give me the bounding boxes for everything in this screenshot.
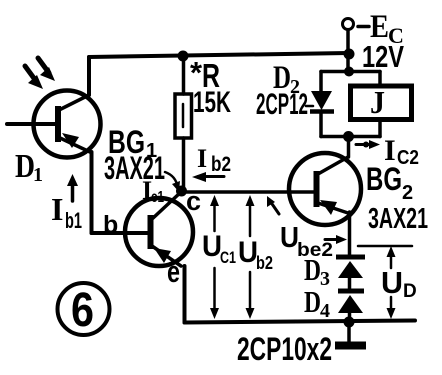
svg-text:3AX21: 3AX21 — [368, 203, 428, 235]
transistor BG2 — [289, 153, 361, 225]
svg-text:I: I — [51, 191, 63, 227]
wire: D1 collector up to top rail — [87, 57, 91, 95]
wire: BG1 emitter down to bottom rail — [183, 266, 187, 323]
svg-text:3: 3 — [320, 268, 330, 290]
wire: -Ec down to branch node — [346, 30, 350, 72]
svg-text:D: D — [403, 281, 417, 302]
label D4 — [304, 284, 330, 322]
relay J with branch wires — [348, 72, 412, 137]
svg-text:2: 2 — [402, 182, 413, 204]
node: emitter / bottom rail junction — [344, 317, 355, 328]
label BG2 3AX21 — [366, 161, 428, 235]
figure number 6 — [58, 283, 110, 337]
svg-text:1: 1 — [33, 164, 43, 186]
wire: junction down to resistor — [182, 56, 186, 94]
label I_c1 with curved arrow — [142, 172, 180, 206]
label D1 — [15, 148, 43, 186]
label I_b2 with arrow — [192, 144, 231, 182]
diode D4 — [338, 291, 364, 322]
svg-text:b2: b2 — [256, 253, 273, 273]
label -Ec 12V — [358, 9, 404, 74]
bottom rail wire — [185, 321, 416, 323]
diode D3 — [336, 257, 365, 289]
ground — [335, 322, 366, 346]
svg-text:2CP12: 2CP12 — [256, 88, 308, 121]
wire: D1 emitter down and right to BG1 base — [92, 152, 149, 233]
svg-text:D: D — [15, 148, 35, 185]
node c junction dot — [176, 186, 187, 197]
svg-text:U: U — [381, 265, 403, 300]
label I_C2 with arrow — [356, 134, 419, 169]
svg-text:I: I — [197, 144, 207, 173]
wire: node down to BG2 collector — [347, 136, 351, 157]
label I_b1 with arrow — [51, 174, 82, 233]
svg-text:J: J — [370, 84, 385, 120]
wire: resistor down to node c — [182, 138, 186, 191]
svg-text:2CP10x2: 2CP10x2 — [237, 331, 332, 367]
wire: top rail — [89, 53, 348, 57]
svg-text:15K: 15K — [193, 86, 231, 119]
svg-text:D: D — [304, 284, 321, 319]
svg-text:c1: c1 — [151, 189, 164, 206]
node: relay/diode branch split — [344, 67, 354, 77]
svg-text:4: 4 — [320, 300, 330, 322]
node: BG2 collector junction — [343, 131, 354, 142]
svg-text:BG: BG — [366, 161, 402, 197]
svg-text:6: 6 — [71, 284, 94, 337]
node: top rail meets -Ec wire — [344, 49, 355, 60]
label D2 2CP12 — [256, 60, 313, 121]
svg-text:U: U — [238, 236, 258, 269]
svg-text:12V: 12V — [362, 39, 404, 74]
resistor R — [175, 94, 192, 138]
label *R 15K — [190, 55, 231, 119]
svg-text:D: D — [304, 252, 321, 287]
phototransistor D1 — [7, 91, 101, 158]
svg-text:b2: b2 — [211, 153, 231, 176]
label D3 — [304, 252, 330, 290]
svg-text:e: e — [167, 254, 180, 289]
wire: node c to BG2 base — [181, 190, 314, 194]
dimension U_C1 — [202, 195, 236, 319]
transistor BG1 — [125, 192, 193, 266]
svg-text:3AX21: 3AX21 — [104, 150, 165, 186]
diode D2 with branch wires — [310, 72, 349, 137]
svg-text:C1: C1 — [220, 248, 236, 267]
wire: BG2 emitter down to D3 — [348, 212, 352, 255]
svg-text:U: U — [202, 230, 222, 263]
svg-text:b1: b1 — [65, 208, 82, 233]
dimension U_D — [358, 246, 417, 319]
terminal -Ec — [343, 19, 354, 30]
light arrows into phototransistor D1 — [25, 58, 55, 89]
dimension U_b2 — [238, 195, 273, 319]
node: top rail / resistor junction — [178, 51, 189, 62]
svg-text:b: b — [103, 211, 118, 239]
label BG1 3AX21 — [104, 124, 165, 186]
label U_be2 with arrows — [267, 196, 347, 261]
